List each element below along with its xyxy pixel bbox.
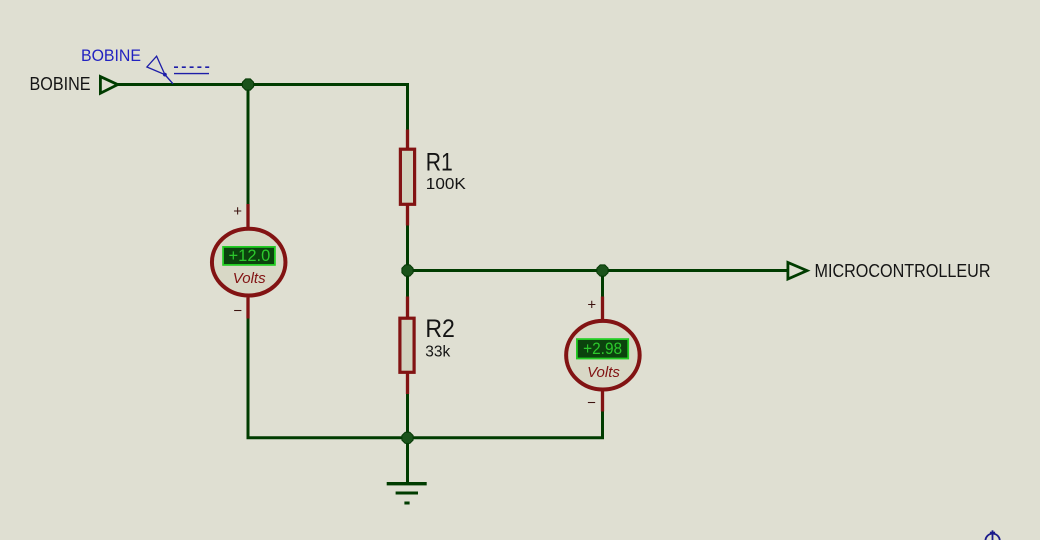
svg-text:−: −	[587, 395, 596, 412]
svg-text:+12.0: +12.0	[229, 247, 271, 265]
svg-text:+2.98: +2.98	[583, 340, 622, 358]
svg-text:Volts: Volts	[587, 364, 620, 381]
svg-text:R2: R2	[425, 315, 455, 343]
svg-text:+: +	[233, 203, 242, 220]
svg-text:R1: R1	[426, 148, 453, 176]
svg-text:33k: 33k	[425, 344, 450, 361]
svg-text:BOBINE: BOBINE	[30, 73, 91, 94]
svg-text:−: −	[233, 303, 242, 320]
svg-text:MICROCONTROLLEUR: MICROCONTROLLEUR	[815, 260, 991, 281]
svg-text:Volts: Volts	[233, 270, 266, 287]
svg-text:+: +	[587, 297, 596, 314]
svg-text:BOBINE: BOBINE	[81, 46, 141, 65]
svg-text:100K: 100K	[426, 176, 467, 193]
